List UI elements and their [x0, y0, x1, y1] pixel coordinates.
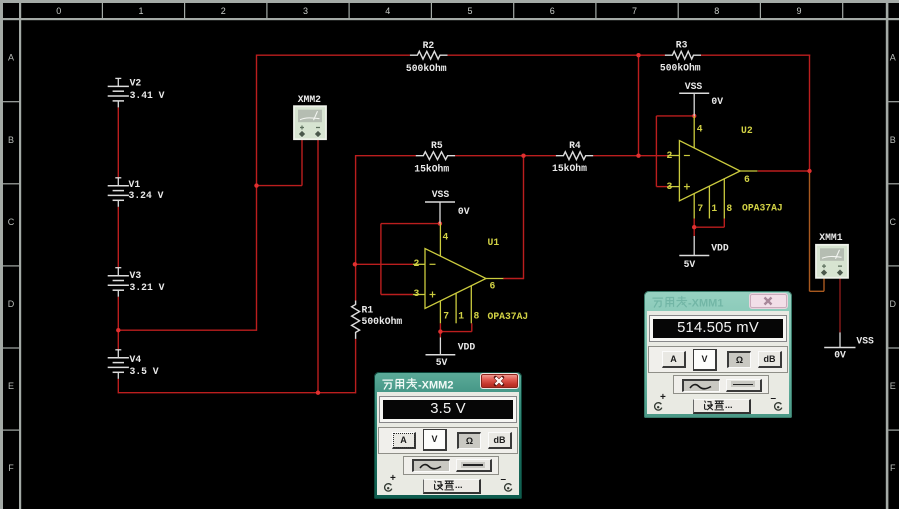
svg-text:3.5 V: 3.5 V	[130, 366, 159, 377]
svg-text:4: 4	[385, 6, 390, 16]
svg-text:5: 5	[467, 6, 472, 16]
svg-text:D: D	[890, 299, 897, 309]
svg-text:5V: 5V	[436, 357, 448, 368]
svg-text:C: C	[8, 217, 15, 227]
svg-text:0V: 0V	[458, 206, 470, 217]
svg-text:7: 7	[632, 6, 637, 16]
svg-text:-XMM1: -XMM1	[688, 298, 723, 310]
svg-text:500kOhm: 500kOhm	[406, 63, 447, 74]
svg-text:6: 6	[550, 6, 555, 16]
svg-text:R5: R5	[431, 140, 443, 151]
svg-text:3.21 V: 3.21 V	[130, 282, 165, 293]
svg-text:R2: R2	[423, 40, 435, 51]
svg-text:15kOhm: 15kOhm	[552, 163, 587, 174]
svg-text:A: A	[890, 53, 896, 63]
svg-text:...: ...	[455, 480, 463, 490]
svg-text:2: 2	[667, 150, 673, 161]
svg-text:4: 4	[443, 231, 449, 242]
svg-text:7: 7	[697, 203, 703, 214]
svg-text:6: 6	[490, 280, 496, 291]
svg-text:A: A	[8, 53, 14, 63]
svg-text:V1: V1	[129, 179, 141, 190]
svg-text:VDD: VDD	[711, 243, 729, 254]
svg-text:R1: R1	[362, 305, 374, 316]
svg-text:V4: V4	[130, 354, 142, 365]
svg-text:0V: 0V	[834, 350, 846, 361]
svg-text:5V: 5V	[684, 259, 696, 270]
svg-text:V2: V2	[130, 77, 142, 88]
svg-text:VSS: VSS	[432, 189, 450, 200]
svg-text:1: 1	[458, 311, 464, 322]
svg-text:3: 3	[667, 181, 673, 192]
svg-text:15kOhm: 15kOhm	[414, 164, 449, 175]
svg-text:8: 8	[726, 203, 732, 214]
svg-text:500kOhm: 500kOhm	[660, 63, 701, 74]
svg-text:2: 2	[414, 258, 420, 269]
svg-text:8: 8	[714, 6, 719, 16]
svg-text:E: E	[890, 381, 896, 391]
svg-text:U2: U2	[741, 125, 753, 136]
svg-text:XMM2: XMM2	[298, 94, 321, 105]
svg-text:7: 7	[443, 311, 449, 322]
svg-text:VDD: VDD	[458, 342, 476, 353]
svg-text:E: E	[8, 381, 14, 391]
svg-text:8: 8	[474, 311, 480, 322]
svg-text:3: 3	[303, 6, 308, 16]
svg-text:VSS: VSS	[685, 81, 703, 92]
svg-text:2: 2	[221, 6, 226, 16]
svg-text:1: 1	[711, 203, 717, 214]
svg-text:3.24 V: 3.24 V	[129, 190, 164, 201]
svg-text:D: D	[8, 299, 15, 309]
svg-text:6: 6	[744, 174, 750, 185]
svg-text:3: 3	[414, 288, 420, 299]
svg-text:R4: R4	[569, 140, 581, 151]
svg-text:3.41 V: 3.41 V	[130, 90, 165, 101]
svg-text:B: B	[8, 135, 14, 145]
svg-text:500kOhm: 500kOhm	[362, 316, 403, 327]
svg-text:...: ...	[725, 400, 733, 410]
svg-text:OPA37AJ: OPA37AJ	[742, 203, 783, 214]
svg-text:V3: V3	[130, 270, 142, 281]
svg-text:U1: U1	[488, 237, 500, 248]
svg-text:F: F	[890, 463, 896, 473]
svg-text:R3: R3	[676, 40, 688, 51]
svg-text:F: F	[8, 463, 14, 473]
svg-text:1: 1	[138, 6, 143, 16]
svg-text:C: C	[890, 217, 897, 227]
svg-text:-XMM2: -XMM2	[418, 379, 453, 391]
svg-text:9: 9	[796, 6, 801, 16]
svg-text:VSS: VSS	[856, 336, 874, 347]
svg-text:0: 0	[56, 6, 61, 16]
svg-text:OPA37AJ: OPA37AJ	[488, 311, 529, 322]
svg-text:4: 4	[697, 123, 703, 134]
svg-text:B: B	[890, 135, 896, 145]
svg-text:0V: 0V	[711, 96, 723, 107]
svg-text:XMM1: XMM1	[819, 232, 842, 243]
